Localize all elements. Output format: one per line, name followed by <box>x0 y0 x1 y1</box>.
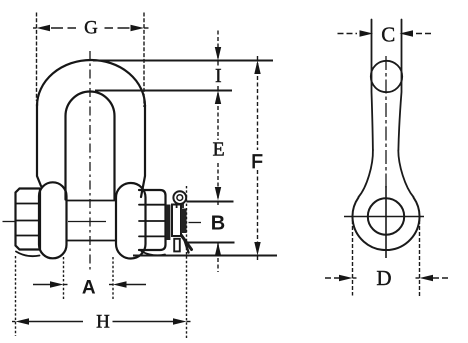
svg-text:A: A <box>82 278 96 299</box>
svg-text:B: B <box>211 213 225 235</box>
svg-text:C: C <box>381 23 395 47</box>
svg-text:G: G <box>84 18 98 39</box>
svg-text:H: H <box>96 312 110 333</box>
svg-text:D: D <box>376 266 391 290</box>
svg-text:E: E <box>212 138 224 160</box>
svg-text:I: I <box>215 65 222 87</box>
svg-text:F: F <box>251 152 263 173</box>
